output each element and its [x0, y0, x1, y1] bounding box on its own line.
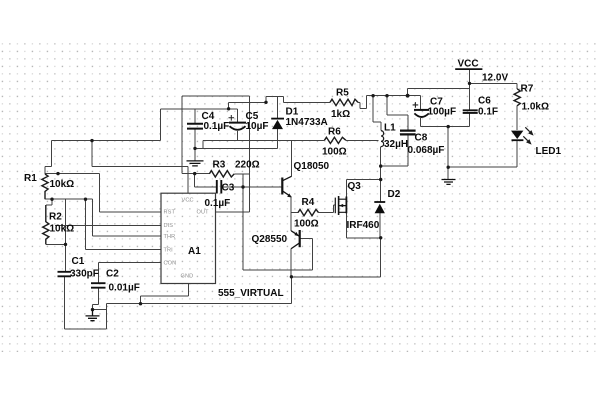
wire top H y=96.2 [182, 96, 249, 173]
wire R3 right [234, 173, 249, 175]
capacitor C2 [91, 283, 106, 288]
wire C3 right / Q1 base [221, 186, 282, 188]
svg-text:100Ω: 100Ω [322, 147, 347, 158]
wire C4 top [194, 109, 196, 124]
wire C1 bottom loop [64, 276, 106, 329]
wire C2 bottom to ground node [93, 288, 107, 310]
node R1 top [56, 172, 59, 175]
wire Q1 collector riser [291, 140, 293, 176]
wire VCC stem and C6 top [470, 69, 518, 110]
dotted drawing grid [1, 42, 597, 352]
VCC symbol [455, 68, 482, 70]
wire L1 feeder [373, 96, 381, 131]
svg-text:0.01µF: 0.01µF [109, 283, 140, 294]
svg-text:IRF460: IRF460 [347, 220, 380, 231]
node C8 bottom [379, 164, 382, 167]
node R1R2 c [84, 198, 87, 201]
555 chip A1 box [161, 193, 216, 283]
wire D2 bottom [379, 213, 381, 238]
resistor R1 [42, 174, 48, 199]
diode D1 (zener) [271, 119, 284, 130]
wire C8 feeder [387, 96, 408, 130]
svg-text:CON: CON [164, 261, 177, 267]
svg-text:10kΩ: 10kΩ [50, 179, 75, 190]
wire OUT [216, 96, 250, 212]
svg-text:A1: A1 [188, 246, 201, 257]
mosfet Q3 (IRF460) [335, 196, 346, 215]
wire Q3 drain row [346, 180, 380, 197]
wire C7 bottom lead [420, 118, 422, 127]
ground under C4 [187, 161, 204, 166]
svg-text:12.0V: 12.0V [482, 73, 508, 84]
wire C7 top lead [420, 96, 422, 110]
wire R1 top to RST net [45, 141, 100, 174]
capacitor C3 (vertical plates) [217, 180, 222, 194]
wire inner top H [229, 101, 266, 103]
wire R5 right jog [358, 96, 366, 109]
capacitor C7 (polarized) [414, 110, 429, 117]
svg-text:0.1F: 0.1F [478, 107, 498, 118]
wire node92 down [92, 141, 188, 193]
svg-text:R4: R4 [302, 197, 315, 208]
svg-text:330pF: 330pF [70, 269, 99, 280]
svg-text:D1: D1 [286, 107, 299, 118]
node C8 [385, 94, 388, 97]
svg-text:1kΩ: 1kΩ [331, 109, 350, 120]
svg-text:C3: C3 [222, 183, 235, 194]
wire LED cathode down [516, 140, 518, 167]
wire H y=276.8 [292, 238, 381, 277]
wire TRI riser [86, 199, 162, 249]
resistor R2 [43, 205, 49, 244]
svg-text:555_VIRTUAL: 555_VIRTUAL [218, 288, 284, 299]
svg-text:100Ω: 100Ω [294, 219, 319, 230]
wire R3 left feeder [182, 174, 216, 187]
node C4 bottom [193, 147, 196, 150]
wire long H y=140.3 [203, 140, 379, 148]
capacitor C8 [400, 131, 416, 135]
wire H y=108.8 C4 top feeder [161, 102, 238, 109]
node hop left [264, 101, 267, 104]
capacitor C6 [463, 110, 478, 113]
wire THR riser [93, 199, 162, 236]
capacitor C4 [187, 124, 203, 129]
svg-text:0.068µF: 0.068µF [408, 145, 445, 156]
svg-text:C8: C8 [415, 133, 428, 144]
node gnd left [91, 308, 94, 311]
svg-text:TRI: TRI [164, 248, 174, 254]
wire top rail [408, 87, 470, 89]
node riser [406, 94, 410, 98]
wire L1 bottom / D2 top [380, 147, 382, 202]
wire V x=243 R3/C3 right [242, 174, 244, 270]
transistor Q1 (Q18050 NPN) [282, 176, 292, 197]
svg-text:0.1µF: 0.1µF [205, 198, 231, 209]
node R1R2 a [50, 198, 53, 201]
svg-text:GND: GND [181, 274, 194, 280]
node H140 [90, 139, 93, 142]
svg-text:32µH: 32µH [384, 139, 408, 150]
wire C1 branch [46, 199, 66, 271]
svg-text:R2: R2 [49, 212, 62, 223]
node C7C6 bottom [447, 125, 450, 128]
svg-text:DIS: DIS [164, 223, 174, 229]
transistor Q2 (Q28550 PNP) [291, 230, 300, 249]
svg-text:R7: R7 [521, 84, 534, 95]
svg-text:220Ω: 220Ω [235, 160, 260, 171]
wire H y=140.6 [51, 140, 160, 142]
svg-text:Q3: Q3 [348, 181, 362, 192]
svg-text:0.1µF: 0.1µF [204, 121, 230, 132]
wire C4 bottom / D1 anode row [195, 129, 278, 161]
node C1 top [64, 243, 67, 246]
svg-text:THR: THR [164, 234, 176, 240]
node Q3 drain [379, 178, 382, 181]
svg-text:R5: R5 [336, 88, 349, 99]
node L1 [371, 94, 374, 97]
node R3 left [193, 172, 196, 175]
capacitor C1 [58, 272, 72, 277]
svg-text:L1: L1 [384, 123, 396, 134]
node VCC [468, 82, 471, 85]
wire Q1 emitter / R4 / Q2 [291, 197, 298, 231]
wire Q2 base loop [243, 239, 312, 270]
svg-text:100µF: 100µF [428, 107, 457, 118]
svg-text:LED1: LED1 [536, 146, 562, 157]
wire D1 cathode up [277, 96, 279, 118]
wire C6/C7 bottom row [421, 126, 470, 128]
wire right bottom riser [291, 277, 293, 304]
svg-text:1.0kΩ: 1.0kΩ [522, 102, 549, 113]
wire R1R2 junction row [45, 199, 93, 205]
resistor R3 [209, 171, 234, 177]
wire R4 right to Q3 gate [319, 205, 336, 213]
LED1 [511, 127, 534, 144]
wire RST riser [100, 174, 162, 212]
svg-text:C2: C2 [106, 269, 119, 280]
node right gnd [447, 166, 450, 169]
svg-text:R3: R3 [213, 160, 226, 171]
wire hop over D1 [266, 96, 330, 102]
node C4 stub [227, 107, 230, 110]
wire CON to C2 [98, 262, 161, 283]
svg-text:OUT: OUT [197, 210, 210, 216]
ground right (C7/C6) [442, 180, 456, 185]
node bottom right [290, 275, 293, 278]
plus sign C5 [229, 115, 235, 121]
node D2 bottom [379, 236, 382, 239]
chip pin labels [164, 198, 210, 280]
svg-text:VCC: VCC [182, 198, 194, 204]
ground under C2 [86, 310, 100, 321]
wire V x=160.5 [160, 109, 162, 141]
node gnd pin [139, 302, 142, 305]
wire HT top right H [366, 95, 420, 97]
resistor R5 [330, 99, 358, 105]
plus sign C7 [413, 102, 419, 108]
wire GND pin step [141, 284, 189, 304]
svg-text:C1: C1 [72, 256, 85, 267]
wire bottom rail [107, 303, 292, 305]
wire right ground drop [448, 127, 517, 180]
capacitor C5 (polarized) [229, 123, 246, 130]
svg-text:R6: R6 [328, 127, 341, 138]
wire DIS [55, 225, 161, 227]
wire C8 bottom [381, 135, 408, 167]
wire C5 leads [237, 109, 239, 141]
svg-text:Q28550: Q28550 [252, 234, 288, 245]
svg-text:R1: R1 [24, 173, 37, 184]
inductor L1 [381, 131, 384, 147]
svg-text:Q18050: Q18050 [294, 161, 330, 172]
svg-text:VCC: VCC [458, 59, 479, 70]
resistor R7 [514, 89, 520, 106]
wire rail riser [407, 88, 409, 95]
svg-text:D2: D2 [388, 189, 401, 200]
diode D2 [374, 202, 385, 213]
svg-text:C6: C6 [478, 96, 491, 107]
wire C6 bottom [469, 113, 471, 127]
svg-text:10kΩ: 10kΩ [50, 224, 75, 235]
wire Q2 collector down [290, 248, 292, 276]
resistor R4 [298, 209, 319, 215]
svg-text:10µF: 10µF [246, 121, 269, 132]
wire Q3 source to node [346, 213, 380, 238]
resistor R6 [324, 137, 346, 143]
node C3 right [241, 185, 244, 188]
svg-text:1N4733A: 1N4733A [286, 117, 328, 128]
wire R7 to LED [516, 106, 518, 131]
svg-text:RST: RST [164, 210, 176, 216]
